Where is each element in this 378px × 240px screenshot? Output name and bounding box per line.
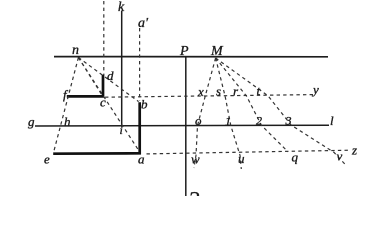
svg-text:k: k: [118, 0, 125, 15]
dashed ray n-b through d: [78, 58, 138, 102]
vertical line k: [121, 11, 123, 127]
dashed ray M-q through r and 2: [216, 58, 288, 152]
svg-text:x: x: [197, 84, 204, 99]
svg-text:e: e: [44, 152, 50, 167]
svg-text:d: d: [107, 68, 114, 83]
svg-text:t: t: [257, 83, 261, 98]
dashed ray n-c: [78, 58, 101, 95]
dashed horizontal a to z: [147, 150, 351, 154]
svg-text:z: z: [351, 143, 357, 158]
svg-text:b: b: [141, 97, 148, 112]
dashed ray n-a through i: [78, 58, 138, 151]
svg-text:s: s: [216, 84, 221, 99]
svg-text:1: 1: [225, 114, 231, 128]
svg-text:v: v: [337, 149, 343, 164]
svg-text:P: P: [179, 44, 189, 59]
svg-text:i: i: [120, 123, 123, 137]
svg-text:a′: a′: [138, 16, 149, 31]
dashed projector a' to b: [139, 28, 141, 101]
svg-text:u: u: [238, 151, 245, 166]
svg-text:c: c: [100, 95, 106, 110]
svg-text:l: l: [330, 113, 334, 128]
svg-text:2: 2: [188, 188, 200, 197]
dashed ray M-w through x and o: [194, 58, 216, 168]
ground line GL (top horizontal): [54, 56, 328, 58]
dashed horizontal c to y: [105, 95, 313, 98]
svg-text:M: M: [210, 44, 224, 59]
svg-text:n: n: [72, 43, 79, 58]
svg-text:o: o: [195, 113, 202, 128]
dashed ray M-v through t and 3: [216, 58, 347, 166]
svg-text:a: a: [138, 152, 145, 167]
svg-text:g: g: [28, 114, 35, 129]
svg-text:y: y: [311, 82, 319, 97]
thick step d-c-f: [67, 75, 103, 97]
svg-text:f: f: [63, 87, 69, 102]
axis line g-l (lower horizontal): [35, 124, 329, 127]
dashed ray n-e through f and h: [54, 58, 79, 152]
dashed ray M-u through s and 1: [216, 58, 242, 169]
svg-text:h: h: [64, 114, 71, 129]
svg-text:2: 2: [256, 114, 262, 128]
thick step b-a-e: [53, 102, 140, 153]
svg-text:3: 3: [285, 114, 292, 128]
dashed projector through d: [103, 1, 105, 75]
svg-text:w: w: [191, 152, 200, 167]
svg-text:q: q: [292, 150, 299, 165]
vertical line P: [185, 57, 187, 197]
